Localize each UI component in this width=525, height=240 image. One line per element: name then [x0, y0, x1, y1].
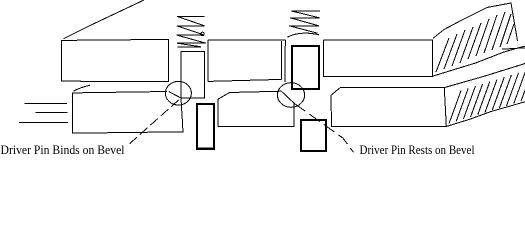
band 1 hatch strokes [436, 12, 514, 72]
hatched side face of plug (band 2) top edge [444, 64, 525, 88]
shell upper-right block [324, 40, 433, 77]
shell chamber 2 left wall [284, 40, 286, 82]
plug lower-left block [73, 92, 183, 134]
highlight circle 1 (binds) [165, 81, 191, 105]
plug lower-middle block [218, 91, 294, 126]
top perspective edge (diagonal line) [64, 0, 145, 39]
highlight circle 2 (rests) [277, 83, 304, 108]
plug lower-right block [331, 87, 446, 126]
spring 1 wire end loop [201, 32, 205, 36]
band 2 bottom edge [446, 102, 525, 127]
svg-text:Driver Pin Rests on Bevel: Driver Pin Rests on Bevel [360, 142, 475, 157]
callout line 1 [130, 98, 181, 144]
driver pin 1 (thin, binding) [181, 51, 205, 98]
spring 2 [289, 11, 320, 33]
key pin 1 (bold) [197, 104, 214, 149]
svg-text:Driver Pin Binds on Bevel: Driver Pin Binds on Bevel [1, 142, 125, 157]
spring 2 bottom coil arc [287, 33, 319, 37]
hatched side face of shell (band 1) outline [433, 3, 518, 41]
band 1 bottom edge [433, 46, 525, 76]
driver pin 2 (bold, resting) [292, 46, 319, 89]
shell upper-middle block left edge (chamber 1 right wall) [207, 40, 209, 81]
shell upper-middle block top edge [208, 39, 286, 41]
shell upper-middle block bottom edge [208, 79, 282, 81]
plug motion lines [25, 102, 68, 104]
shell bottom-face sliver edge [502, 48, 525, 49]
shell upper-middle block right edge [281, 41, 283, 80]
callout line 2 [295, 104, 354, 153]
plug lower-left block corner bevel arc [74, 85, 91, 91]
spring 1 [177, 16, 206, 46]
band 2 hatch strokes [449, 68, 525, 123]
key pin 2 (bold) [301, 120, 326, 151]
shell upper-left block [61, 39, 168, 81]
